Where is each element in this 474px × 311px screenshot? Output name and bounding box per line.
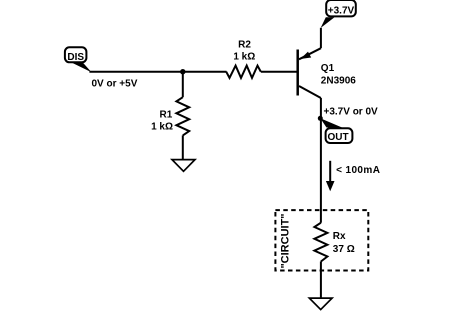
svg-text:2N3906: 2N3906 — [321, 75, 356, 86]
wire: emitter up to +3.7V — [320, 28, 322, 48]
svg-text:DIS: DIS — [67, 52, 84, 63]
current annotation arrowhead — [326, 181, 335, 191]
svg-text:1 kΩ: 1 kΩ — [151, 121, 173, 132]
label +3.7V pointer tail — [321, 17, 335, 28]
ground symbol bottom — [309, 298, 332, 310]
svg-text:OUT: OUT — [328, 132, 349, 143]
svg-text:0V or +5V: 0V or +5V — [92, 79, 138, 90]
transistor Q1 collector diagonal — [299, 86, 321, 98]
transistor Q1 base bar — [296, 50, 299, 96]
resistor R2 zigzag — [226, 66, 261, 78]
label DIS pointer tail — [72, 63, 92, 73]
wire: base wire R2 to Q1 — [261, 71, 297, 73]
svg-text:R2: R2 — [238, 40, 251, 51]
svg-text:< 100mA: < 100mA — [336, 165, 380, 176]
svg-text:Rx: Rx — [333, 231, 346, 242]
svg-text:R1: R1 — [160, 109, 173, 120]
wire: junction down to R1 — [182, 72, 184, 98]
svg-text:37 Ω: 37 Ω — [333, 244, 355, 255]
label OUT pointer tail — [320, 118, 342, 127]
svg-text:1 kΩ: 1 kΩ — [233, 52, 255, 63]
node dot OUT — [318, 116, 323, 121]
resistor Rx zigzag — [314, 223, 327, 262]
ground symbol left — [172, 160, 195, 172]
current annotation arrow line — [329, 161, 331, 182]
wire: R1 to ground — [182, 135, 184, 159]
node junction dot A — [180, 69, 185, 74]
transistor Q1 emitter arrowhead (PNP) — [300, 52, 311, 59]
transistor Q1 emitter diagonal — [299, 48, 321, 59]
wire: main horizontal net from DIS to R2 — [89, 71, 226, 73]
dashed box CIRCUIT — [275, 210, 368, 270]
svg-text:+3.7V or 0V: +3.7V or 0V — [324, 107, 379, 118]
wire: collector down to circuit — [320, 98, 322, 223]
wire: Rx to bottom ground — [320, 262, 322, 299]
svg-text:+3.7V: +3.7V — [328, 5, 355, 16]
resistor R1 zigzag — [176, 97, 189, 135]
svg-text:"CIRCUIT": "CIRCUIT" — [280, 213, 292, 268]
svg-text:Q1: Q1 — [321, 63, 335, 74]
label OUT box — [326, 128, 353, 143]
label +3.7V box — [326, 0, 356, 16]
label DIS box — [65, 47, 87, 63]
